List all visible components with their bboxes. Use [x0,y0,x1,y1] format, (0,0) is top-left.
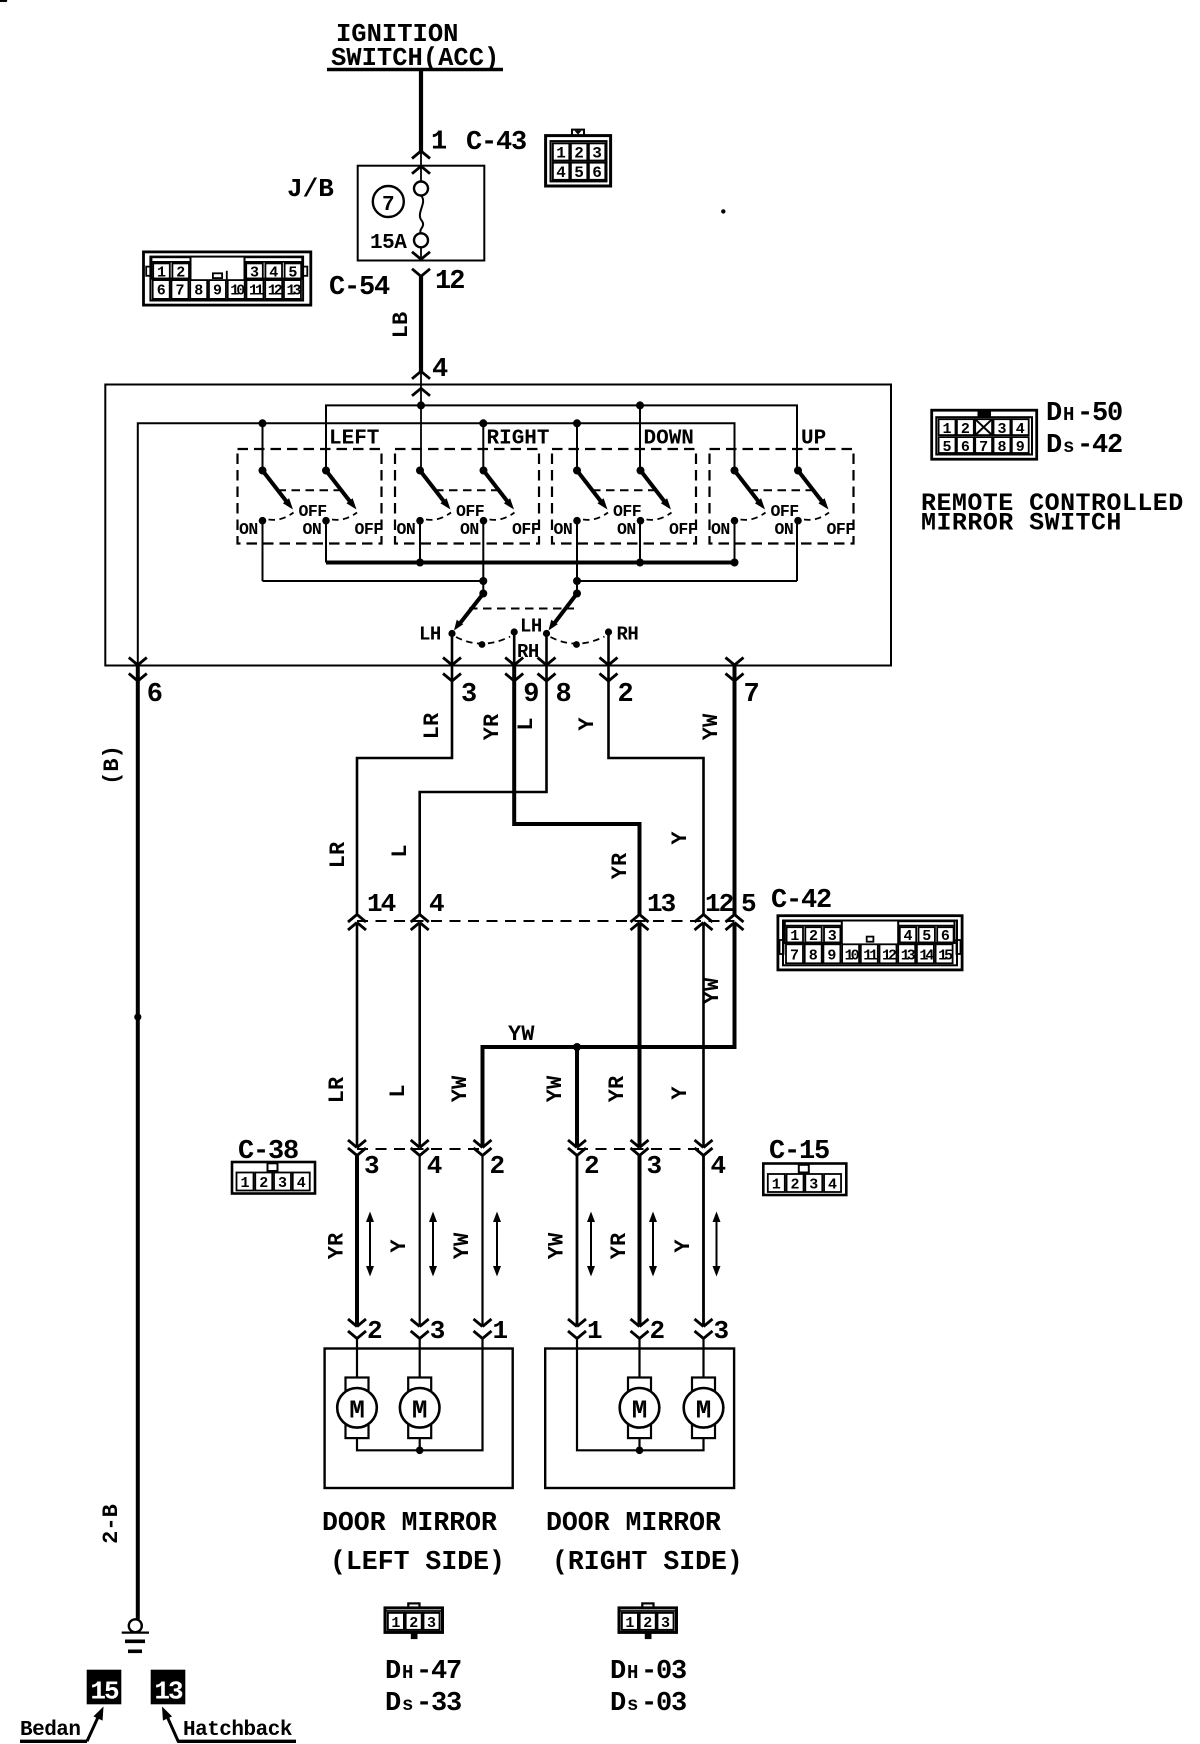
wire right motor a to common [638,1438,640,1450]
svg-text:H: H [402,1662,413,1684]
switch UP-b label OFF (bottom) [827,520,855,539]
svg-text:12: 12 [435,267,464,297]
switch DOWN-b label OFF (bottom) [669,520,697,539]
junction node line B to LEFT switch a [259,419,267,427]
svg-text:3: 3 [461,680,477,710]
wire left motor b to common [419,1438,421,1450]
switch RIGHT-a pivot [416,467,424,475]
fuse rating 15A [370,232,407,255]
wire selector-right RH contact to pin 2 [607,632,610,666]
switch group LEFT dashed box [238,449,382,544]
svg-text:-33: -33 [416,1689,461,1719]
svg-text:L: L [386,1084,411,1097]
svg-text:3: 3 [661,1615,670,1632]
svg-text:13: 13 [154,1676,183,1706]
selector right (LH/RH) pivot [573,590,581,598]
svg-text:3: 3 [250,265,259,282]
wire YW from connector to right door mirror [576,1156,579,1327]
wire stub into mirror box at x=577 [576,1339,578,1350]
wire L from C-42 to C-38 pin 4 [418,923,421,1148]
junction node selector-right common [573,577,581,585]
wire YW bus from C-42 pin 5 [483,923,735,1148]
wire YW from connector to left door mirror [481,1156,483,1327]
junction node line B to DOWN switch a [573,419,581,427]
connector C-42 chevrons at x=703.5 [695,915,713,931]
svg-text:OFF: OFF [669,520,697,539]
connector pin 9 chevrons (switch box exit) [505,658,523,682]
wire DOWN-a ON contact to line D-right [576,521,578,581]
svg-text:YR: YR [325,1232,350,1259]
label C-38 [238,1137,298,1167]
svg-text:D: D [385,1689,401,1719]
junction node DOWN-b on line C [636,559,644,567]
wire LB from J/B pin 12 to switch pin 4 [419,276,423,406]
bus line B (ground rail) [138,423,735,665]
svg-text:ON: ON [397,520,416,539]
svg-text:D: D [1046,431,1062,461]
svg-text:ON: ON [711,520,730,539]
switch RIGHT-b contact ON [460,517,487,539]
wire YR from connector to right door mirror [638,1156,642,1327]
svg-text:2: 2 [490,1151,506,1181]
svg-text:3: 3 [828,928,837,945]
selector right (LH/RH) travel arc [551,637,605,644]
wire color label YW (above C-38) [448,1075,473,1102]
connector chevrons C-38/C-15 at x=419.7 [411,1140,429,1156]
svg-text:5: 5 [943,439,952,456]
connector DH-47/DS-33 icon [385,1603,443,1639]
label UP [801,428,826,451]
switch LEFT-a blade [263,471,294,510]
svg-text:2: 2 [367,1316,383,1346]
svg-text:5: 5 [741,889,757,919]
svg-text:1: 1 [391,1615,400,1632]
svg-text:1: 1 [587,1316,603,1346]
svg-text:YW: YW [543,1075,568,1102]
pin number 3 [461,680,477,710]
svg-text:6: 6 [941,928,950,945]
connector C-42 icon [778,916,962,970]
svg-text:1: 1 [431,128,447,158]
wire color label L (above C-38) [386,1084,411,1097]
switch RIGHT-b label OFF (bottom) [512,520,540,539]
junction node selector-left common [479,577,487,585]
svg-text:4: 4 [556,164,566,182]
svg-text:OFF: OFF [355,520,383,539]
svg-text:13: 13 [647,889,676,919]
pin number 2 (C-15) [584,1151,600,1181]
svg-text:4: 4 [432,355,448,385]
selector left (LH/RH) travel arc [456,637,510,644]
wire B (ground) from pin 6 [136,665,140,1619]
svg-text:3: 3 [427,1615,436,1632]
svg-text:UP: UP [801,428,826,451]
selector left (LH/RH) contact RH [511,628,518,635]
switch DOWN-b contact ON [617,517,644,539]
svg-text:(RIGHT SIDE): (RIGHT SIDE) [552,1547,743,1577]
label DH-50 [1046,399,1122,429]
bus line D-left [263,580,484,582]
wire color label YW (to left mirror) [450,1232,475,1259]
svg-text:2: 2 [809,928,818,945]
svg-text:ON: ON [239,520,258,539]
svg-text:-50: -50 [1077,399,1122,429]
switch RIGHT-b pivot [480,467,488,475]
switch UP-a label OFF (blade tip) [771,502,799,521]
pin number 5 (C-42) [741,889,757,919]
switch group RIGHT dashed box [395,449,539,544]
wire color label LB [389,312,414,338]
connector pin 1 chevrons (C-43) [412,151,430,174]
label RH (selector left) [517,641,539,663]
svg-text:J/B: J/B [287,174,334,204]
ground symbol [122,1619,149,1651]
wire L from pin 8 to C-42 pin 4 [420,665,547,915]
pin number 1 (door mirror) [493,1316,509,1346]
svg-text:YW: YW [700,977,725,1004]
fuse F7 symbol [414,182,428,260]
svg-text:12: 12 [705,889,734,919]
connector C-43 icon [546,130,611,186]
connector pin 3 chevrons (door mirror) [411,1319,429,1339]
svg-text:4: 4 [711,1151,727,1181]
svg-text:D: D [610,1657,626,1687]
svg-text:L: L [388,844,413,857]
svg-text:Y: Y [387,1239,412,1253]
wire Y from C-42 to C-15 pin 4 [702,923,705,1148]
scan specks top-left corner [0,0,7,2]
wire feed drop to RIGHT switch a [420,405,422,470]
bus line A (ACC feed rail) [326,405,797,470]
svg-text:1: 1 [240,1175,249,1192]
svg-text:7: 7 [744,680,760,710]
selector mechanical coupling [469,608,574,610]
connector C-15 icon [763,1164,846,1196]
pin number 12 (C-42) [705,889,734,919]
svg-text:OFF: OFF [771,502,799,521]
switch UP-a contact ON [711,517,738,539]
label DS-33 [385,1689,461,1719]
label LH (selector right) [520,616,542,638]
wire color label LR (above C-38) [325,1076,350,1103]
svg-text:C-43: C-43 [466,128,526,158]
wire to right motor a [638,1349,640,1378]
switch LEFT-b pivot [322,467,330,475]
svg-text:2: 2 [791,1177,800,1194]
wire color label L (upper) [514,717,539,730]
wire color label YW (upper) [699,713,724,740]
label RIGHT [487,428,550,451]
page reference tag 13 [151,1670,186,1707]
wire color label YR (to right mirror) [607,1232,632,1259]
svg-text:8: 8 [809,948,818,965]
svg-text:MIRROR SWITCH: MIRROR SWITCH [921,509,1122,538]
wire selector-left RH contact to pin 9 [513,632,516,666]
switch DOWN-b travel arc [647,513,672,520]
svg-text:YR: YR [607,1232,632,1259]
connector chevrons C-38/C-15 at x=703.5 [695,1140,713,1156]
wire Y from connector to right door mirror [702,1156,705,1327]
svg-text:1: 1 [556,145,566,163]
switch UP-b travel arc [804,513,829,520]
svg-text:4: 4 [1016,421,1025,438]
wire color label Y (upper) [575,717,600,731]
svg-text:YW: YW [508,1022,535,1047]
svg-text:ON: ON [775,520,794,539]
svg-text:C-42: C-42 [771,886,831,916]
switch DOWN-a label OFF (blade tip) [613,502,641,521]
wire selector-left LH contact to pin 3 [451,634,454,666]
svg-text:OFF: OFF [512,520,540,539]
svg-text:LR: LR [420,712,445,739]
svg-text:-03: -03 [641,1689,686,1719]
svg-text:9: 9 [213,283,222,300]
wire selector-right common drop [576,581,578,594]
wire color label Y (to right mirror) [671,1239,696,1253]
switch RIGHT-a travel arc [426,513,451,520]
pin number 4 [432,355,448,385]
connector pin 1 chevrons (door mirror) [568,1319,586,1339]
svg-text:M: M [696,1395,712,1425]
wire color label L (lower) [388,844,413,857]
svg-text:H: H [627,1662,638,1684]
connector pin 7 chevrons (switch box exit) [726,658,744,682]
connector pin 12 chevrons (C-54) [412,252,430,276]
wire YW from pin 7 to C-42 pin 5 [733,665,737,915]
switch group UP mechanical coupling [750,489,814,491]
svg-text:Y: Y [575,717,600,731]
pin number 1 [431,128,447,158]
label Sedan [20,1719,87,1742]
wire color label Y (above C-15) [668,1086,693,1100]
svg-text:4: 4 [903,928,912,945]
pin number 7 [744,680,760,710]
svg-text:LH: LH [520,616,542,638]
svg-text:ON: ON [303,520,322,539]
switch group DOWN dashed box [552,449,696,544]
switch LEFT-a contact ON [239,517,266,539]
bus line C (motor common, thick) [326,561,735,565]
label DOOR MIRROR (RIGHT SIDE) [546,1508,743,1577]
selector right (LH/RH) centre position node [573,641,580,648]
connector pin 2 chevrons (switch box exit) [600,658,618,682]
switch UP-a blade [735,471,766,510]
wire to left motor a [356,1349,358,1378]
svg-text:3: 3 [430,1316,446,1346]
switch UP-b pivot [794,467,802,475]
connector chevrons C-38/C-15 at x=639.5 [631,1140,649,1156]
wire color label YW (to right mirror) [545,1232,570,1259]
svg-text:6: 6 [961,439,970,456]
junction node UP-a / pin7 on line C [731,559,739,567]
bidirectional arrow beside YR wire [649,1212,657,1277]
wire color label Y (to left mirror) [387,1239,412,1253]
bidirectional arrow beside YW wire [493,1212,501,1277]
junction node left mirror common [416,1447,424,1455]
wire LEFT-b ON contact to line C [325,521,327,563]
switch DOWN-b blade [641,471,672,510]
svg-text:Hatchback: Hatchback [183,1719,292,1742]
wire Y from pin 2 to C-42 pin 12 [609,665,704,915]
wire stub into mirror box at x=703.5 [702,1339,704,1350]
svg-text:LR: LR [325,1076,350,1103]
wire line B drop to RIGHT switch b [482,423,484,470]
label REMOTE CONTROLLED [921,489,1184,518]
wire to right motor b [702,1349,704,1378]
svg-text:DOOR MIRROR: DOOR MIRROR [546,1508,721,1538]
svg-text:5: 5 [288,265,297,282]
selector right (LH/RH) contact LH [543,630,550,637]
wire line A drop to DOWN switch b [639,405,641,470]
selector left (LH/RH) pivot [479,590,487,598]
label LH (selector left) [419,624,441,646]
wire LR from pin 3 to C-42 pin 14 [357,665,452,915]
label DS-03 [610,1689,686,1719]
wire to left motor b [419,1349,421,1378]
wire color label YR (to left mirror) [325,1232,350,1259]
switch DOWN-b pivot [637,467,645,475]
wire RIGHT-b ON contact to line D-left [482,521,484,581]
svg-text:8: 8 [556,680,572,710]
connector C-38 icon [232,1162,315,1194]
svg-text:15: 15 [90,1676,119,1706]
connector C-54 icon [144,252,311,305]
label DOOR MIRROR (LEFT SIDE) [322,1508,505,1577]
svg-text:3: 3 [809,1177,818,1194]
connector C-42 separation line [357,920,735,922]
label DS-42 [1046,431,1122,461]
svg-text:YW: YW [450,1232,475,1259]
svg-text:2: 2 [409,1615,418,1632]
pin number 12 [435,267,464,297]
pin number 8 [556,680,572,710]
connector DH-50/DS-42 icon [932,410,1037,459]
svg-text:OFF: OFF [827,520,855,539]
svg-text:1: 1 [790,928,799,945]
svg-text:s: s [1063,436,1074,458]
pin number 6 [147,680,163,710]
svg-text:5: 5 [922,928,931,945]
door mirror right box [545,1349,734,1489]
svg-text:3: 3 [592,145,602,163]
svg-text:ON: ON [460,520,479,539]
wire label YW (bus) [508,1022,535,1047]
label DH-47 [385,1657,461,1687]
svg-text:OFF: OFF [456,502,484,521]
svg-text:C-54: C-54 [329,273,390,303]
junction block J/B box [358,166,485,261]
wire Y from connector to left door mirror [419,1156,421,1327]
svg-text:LH: LH [419,624,441,646]
wire YW branch to C-15 pin 2 [575,1047,579,1148]
pin number 4 (C-42) [429,889,445,919]
wire color label LR (upper) [420,712,445,739]
switch group LEFT mechanical coupling [278,489,342,491]
remote controlled mirror switch box outline [105,385,891,666]
junction node RIGHT-a on line C [416,559,424,567]
pin number 4 (C-15) [711,1151,727,1181]
svg-text:4: 4 [269,265,278,282]
svg-text:RIGHT: RIGHT [487,428,550,451]
wire left mirror common return [357,1349,483,1450]
junction node right mirror common [636,1447,644,1455]
pin number 13 [647,889,676,919]
motor M left-a [337,1378,377,1439]
wire stub into mirror box at x=639.5 [638,1339,640,1350]
svg-text:OFF: OFF [613,502,641,521]
switch UP-b blade [798,471,829,510]
switch group UP dashed box [710,449,854,544]
svg-text:2: 2 [574,145,584,163]
wire UP-b ON contact to line D-right [796,521,798,581]
switch UP-b contact ON [775,517,802,539]
svg-text:DOWN: DOWN [644,428,694,451]
svg-text:s: s [402,1694,413,1716]
selector right (LH/RH) contact RH [605,628,612,635]
svg-text:M: M [412,1395,428,1425]
svg-text:9: 9 [523,680,539,710]
connector DH-03/DS-03 icon [619,1603,677,1639]
svg-text:(B): (B) [100,745,125,785]
svg-text:RH: RH [617,624,639,646]
svg-text:OFF: OFF [299,502,327,521]
label C-15 [769,1137,829,1167]
connector pin 1 chevrons (door mirror) [474,1319,492,1339]
junction node feed on line A [417,401,425,409]
svg-text:3: 3 [647,1151,663,1181]
svg-text:8: 8 [997,439,1006,456]
svg-text:1: 1 [772,1177,781,1194]
svg-text:-03: -03 [641,1657,686,1687]
svg-text:6: 6 [592,164,602,182]
junction node line B to RIGHT switch b [479,419,487,427]
svg-text:4: 4 [828,1177,837,1194]
svg-text:YR: YR [608,852,633,879]
svg-text:2: 2 [643,1615,652,1632]
arrow Sedan to tag 15 [87,1707,104,1742]
svg-text:7: 7 [979,439,988,456]
label DOWN [644,428,694,451]
svg-text:14: 14 [367,889,396,919]
wire RIGHT-a ON contact to line C [419,521,421,563]
switch RIGHT-a blade [420,471,451,510]
connector chevrons C-38/C-15 at x=482.5 [474,1140,492,1156]
svg-text:Y: Y [668,1086,693,1100]
motor M right-b [684,1378,724,1439]
svg-text:LB: LB [389,312,414,338]
label RH (selector right) [617,624,639,646]
pin number 3 (C-38) [364,1151,380,1181]
svg-text:9: 9 [1016,439,1025,456]
stray mark [721,209,725,213]
svg-text:L: L [514,717,539,730]
svg-text:2: 2 [176,265,185,282]
connector pin 3 chevrons (switch box exit) [443,658,461,682]
svg-text:3: 3 [364,1151,380,1181]
svg-text:YW: YW [699,713,724,740]
svg-text:7: 7 [790,948,799,965]
svg-text:(LEFT SIDE): (LEFT SIDE) [330,1547,505,1577]
label C-54 [329,273,390,303]
switch LEFT-b blade [326,471,357,510]
svg-text:-42: -42 [1077,431,1122,461]
motor M left-b [400,1378,440,1439]
switch LEFT-b label OFF (bottom) [355,520,383,539]
connector C-38 separation line [357,1148,483,1150]
pin number 9 [523,680,539,710]
switch LEFT-a pivot [259,467,267,475]
pin number 2 (C-38) [490,1151,506,1181]
